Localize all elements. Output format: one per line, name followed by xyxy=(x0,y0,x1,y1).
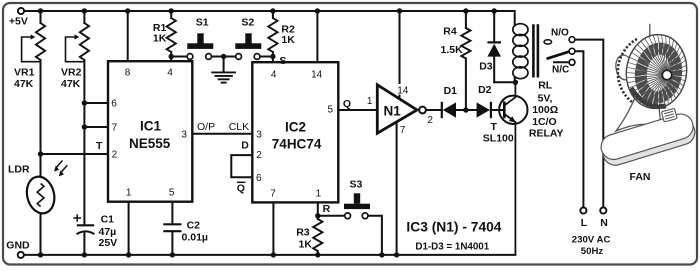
svg-text:6: 6 xyxy=(111,98,117,109)
wire D3 column xyxy=(493,11,495,82)
wire IC1 pin1 column xyxy=(128,202,130,255)
svg-text:D: D xyxy=(241,140,249,152)
svg-text:GND: GND xyxy=(6,240,30,252)
svg-text:1: 1 xyxy=(367,96,373,107)
wire Q output to N1 input xyxy=(338,109,377,111)
wire N1 pin7 column xyxy=(396,122,398,255)
svg-text:D2: D2 xyxy=(478,84,492,96)
pushbutton S3 xyxy=(344,193,370,218)
wire VR1 column to LDR to rail xyxy=(40,11,42,255)
LDR xyxy=(23,161,67,217)
svg-text:N: N xyxy=(600,217,608,229)
wire D2 to transistor base xyxy=(491,109,504,111)
svg-text:2: 2 xyxy=(112,150,118,161)
svg-text:CLK: CLK xyxy=(229,121,249,133)
svg-text:L: L xyxy=(581,217,588,229)
svg-text:5V,: 5V, xyxy=(538,92,553,104)
svg-text:T: T xyxy=(491,121,498,133)
wire top +5V rail xyxy=(24,11,515,24)
svg-text:74HC74: 74HC74 xyxy=(272,136,322,151)
wire R junction to S3 left contact xyxy=(318,215,345,217)
wire N1 bubble to D1 xyxy=(426,109,442,111)
wire IC1 pin6 stub xyxy=(84,102,108,104)
wire relay N/C stub xyxy=(554,61,569,63)
inverter N1 xyxy=(377,85,426,133)
svg-text:2: 2 xyxy=(427,115,433,126)
svg-text:4: 4 xyxy=(271,69,277,80)
svg-text:C1: C1 xyxy=(101,213,115,225)
capacitor C1 xyxy=(73,214,94,234)
svg-text:5: 5 xyxy=(328,105,334,116)
svg-text:47K: 47K xyxy=(14,78,34,90)
svg-text:1K: 1K xyxy=(153,32,167,44)
wire S2 right to R2 bottom junction xyxy=(260,56,273,58)
wire R2 / IC2 pin4 column xyxy=(272,11,274,62)
resistor R3 xyxy=(313,219,322,251)
svg-text:3: 3 xyxy=(256,130,262,141)
IC2 box 74HC74 xyxy=(252,62,338,202)
Q-bar overline xyxy=(237,181,245,183)
O/P and CLK labels xyxy=(197,121,249,133)
svg-text:S1: S1 xyxy=(196,17,209,29)
capacitor C2 xyxy=(163,224,181,231)
svg-text:S: S xyxy=(279,55,286,67)
svg-text:RL: RL xyxy=(538,79,553,91)
potentiometer VR1 xyxy=(36,23,45,60)
svg-text:VR2: VR2 xyxy=(61,66,82,78)
svg-text:D1: D1 xyxy=(444,85,458,97)
svg-text:1.5K: 1.5K xyxy=(441,44,464,56)
wire relay N/O contact to N terminal xyxy=(575,40,603,208)
pushbutton S1 xyxy=(187,33,213,59)
svg-text:0.01µ: 0.01µ xyxy=(182,232,209,244)
wire R4 column xyxy=(465,11,467,110)
svg-text:1C/O: 1C/O xyxy=(532,116,557,128)
svg-text:R3: R3 xyxy=(296,227,310,239)
svg-text:Q: Q xyxy=(343,98,351,110)
transistor T SL100 xyxy=(499,82,527,255)
wire IC2 pin14 column xyxy=(316,11,318,62)
svg-text:7: 7 xyxy=(400,125,406,136)
svg-text:N/O: N/O xyxy=(551,27,569,38)
svg-text:D3: D3 xyxy=(479,60,493,72)
svg-text:8: 8 xyxy=(125,67,131,78)
svg-text:S2: S2 xyxy=(241,17,254,29)
svg-text:NE555: NE555 xyxy=(129,136,171,151)
relay coil RL xyxy=(513,24,528,79)
wire IC1 pin7 stub xyxy=(84,126,108,128)
svg-text:IC1: IC1 xyxy=(140,119,162,134)
svg-text:1K: 1K xyxy=(299,239,313,251)
wire N1 pin14 column xyxy=(399,11,401,99)
svg-text:T: T xyxy=(96,140,103,152)
svg-text:1K: 1K xyxy=(281,34,295,46)
terminal L xyxy=(580,207,586,213)
wire D to Q-bar loop xyxy=(231,155,252,177)
wire bottom GND rail xyxy=(24,254,515,256)
svg-text:7: 7 xyxy=(270,189,276,200)
resistor R4 xyxy=(461,28,470,59)
wire IC2 pin7 column xyxy=(272,202,274,255)
resistor R1 xyxy=(167,18,176,52)
wire IC2 pin1 to R junction, R3 xyxy=(317,202,319,219)
relay contacts N/O N/C xyxy=(544,37,575,66)
wire IC1 pin2 stub from LDR column xyxy=(41,153,109,155)
svg-text:7: 7 xyxy=(112,123,118,134)
svg-text:Q: Q xyxy=(237,183,245,195)
diode D1 xyxy=(442,102,456,118)
svg-text:14: 14 xyxy=(311,69,323,80)
wire R1 / IC1 pin4 column xyxy=(170,11,172,61)
svg-text:100Ω: 100Ω xyxy=(532,104,558,116)
wire coil bottom to collector junction xyxy=(494,78,515,82)
svg-text:N1: N1 xyxy=(384,104,402,119)
svg-text:230V AC: 230V AC xyxy=(572,235,611,246)
wire IC1 pin5 to C2 to rail xyxy=(171,202,173,255)
wire S3 right contact down to rail xyxy=(368,216,382,255)
svg-text:1: 1 xyxy=(126,187,132,198)
svg-text:IC2: IC2 xyxy=(285,120,306,135)
svg-text:S3: S3 xyxy=(350,178,363,190)
svg-text:47K: 47K xyxy=(61,78,81,90)
svg-text:+5V: +5V xyxy=(9,15,28,27)
potentiometer VR2 xyxy=(80,23,89,60)
ground xyxy=(211,72,236,82)
svg-text:6: 6 xyxy=(256,173,262,184)
wire IC1 pin8 column xyxy=(127,11,129,61)
terminal GND xyxy=(18,252,24,258)
resistor R2 xyxy=(268,18,277,52)
svg-text:5: 5 xyxy=(169,187,175,198)
wire VR2 column through C1 xyxy=(83,11,85,255)
svg-text:1: 1 xyxy=(316,189,322,200)
diode D2 xyxy=(477,102,491,118)
svg-text:2: 2 xyxy=(256,150,262,161)
pushbutton S2 xyxy=(235,33,261,59)
svg-text:LDR: LDR xyxy=(8,164,30,176)
svg-text:25V: 25V xyxy=(99,237,118,249)
svg-text:VR1: VR1 xyxy=(14,66,35,78)
svg-text:SL100: SL100 xyxy=(483,132,514,144)
svg-text:N/C: N/C xyxy=(552,64,569,75)
op-amp IC1 box NE555 xyxy=(108,61,192,202)
svg-text:R: R xyxy=(323,203,331,215)
svg-text:FAN: FAN xyxy=(630,171,651,183)
pin number labels xyxy=(125,67,323,199)
wire relay pole to L terminal xyxy=(575,51,584,207)
wire pin4 junction to S1 left contact xyxy=(171,56,187,58)
terminal N xyxy=(600,207,606,213)
svg-text:D1-D3 = 1N4001: D1-D3 = 1N4001 xyxy=(415,242,489,253)
terminal +5V xyxy=(18,8,24,14)
wire R3 bottom to rail xyxy=(317,251,319,255)
svg-text:14: 14 xyxy=(397,85,409,96)
wire S1 right to S2 left with ground tap xyxy=(212,57,236,72)
svg-text:50Hz: 50Hz xyxy=(581,246,604,257)
svg-text:3: 3 xyxy=(181,129,187,140)
svg-text:C2: C2 xyxy=(187,219,201,231)
wire D1 to junction to D2 xyxy=(456,109,477,111)
svg-text:IC3 (N1) - 7404: IC3 (N1) - 7404 xyxy=(406,220,501,235)
fan illustration xyxy=(598,24,698,168)
svg-text:RELAY: RELAY xyxy=(529,128,564,140)
svg-text:4: 4 xyxy=(167,67,173,78)
svg-text:O/P: O/P xyxy=(197,121,215,133)
wire IC1 pin3 O/P to IC2 CLK xyxy=(192,133,252,135)
svg-text:R4: R4 xyxy=(443,25,457,37)
diode D3 xyxy=(487,42,501,56)
relay core bars xyxy=(533,24,538,77)
